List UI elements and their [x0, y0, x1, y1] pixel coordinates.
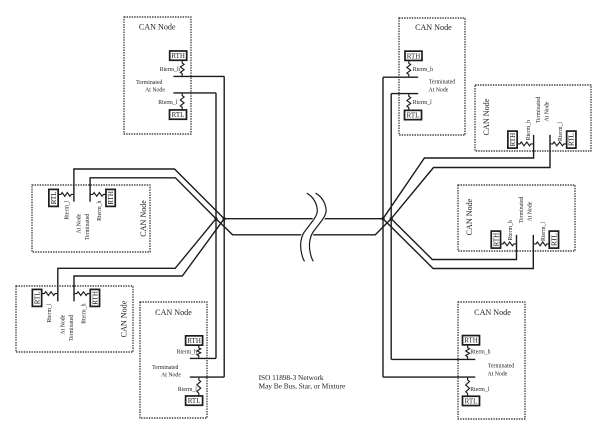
svg-text:At Node: At Node — [145, 88, 165, 94]
svg-text:RTH: RTH — [492, 233, 500, 247]
svg-text:Rterm_l: Rterm_l — [47, 303, 53, 322]
svg-text:CAN Node: CAN Node — [155, 308, 192, 317]
svg-text:CAN Node: CAN Node — [415, 23, 452, 32]
svg-text:Terminated: Terminated — [519, 197, 525, 223]
svg-text:CAN Node: CAN Node — [120, 300, 129, 337]
svg-text:Rterm_h: Rterm_h — [526, 120, 532, 140]
svg-text:RTH: RTH — [171, 52, 185, 60]
svg-text:RTH: RTH — [91, 291, 99, 305]
svg-text:RTH: RTH — [107, 191, 115, 205]
svg-text:Rterm_h: Rterm_h — [81, 303, 87, 323]
svg-text:RTL: RTL — [407, 111, 420, 119]
svg-text:CAN Node: CAN Node — [474, 308, 511, 317]
svg-text:RTL: RTL — [465, 397, 478, 405]
svg-text:Rterm_l: Rterm_l — [413, 100, 432, 106]
svg-text:Rterm_l: Rterm_l — [470, 387, 489, 393]
svg-text:RTH: RTH — [187, 337, 201, 345]
svg-text:At Node: At Node — [527, 201, 533, 221]
svg-text:Terminated: Terminated — [85, 214, 91, 240]
svg-text:RTL: RTL — [33, 291, 41, 304]
svg-text:At Node: At Node — [544, 101, 550, 121]
svg-text:Rterm_l: Rterm_l — [541, 222, 547, 241]
svg-text:Rterm_l: Rterm_l — [558, 122, 564, 141]
svg-text:Rterm_h: Rterm_h — [508, 220, 514, 240]
svg-text:Terminated: Terminated — [488, 364, 514, 370]
svg-text:Terminated: Terminated — [152, 365, 178, 371]
svg-text:Rterm_l: Rterm_l — [178, 387, 197, 393]
svg-text:RTL: RTL — [172, 111, 185, 119]
svg-text:At Node: At Node — [60, 314, 66, 334]
svg-text:RTL: RTL — [550, 233, 558, 246]
svg-text:May Be Bus, Star, or Mixture: May Be Bus, Star, or Mixture — [259, 381, 346, 390]
svg-text:CAN Node: CAN Node — [465, 198, 474, 235]
svg-text:CAN Node: CAN Node — [139, 22, 176, 31]
svg-text:Rterm_h: Rterm_h — [160, 67, 180, 73]
svg-text:Rterm_h: Rterm_h — [177, 349, 197, 355]
svg-text:Terminated: Terminated — [429, 80, 455, 86]
svg-text:Terminated: Terminated — [69, 315, 75, 341]
svg-text:Rterm_l: Rterm_l — [158, 100, 177, 106]
svg-text:Terminated: Terminated — [536, 97, 542, 123]
svg-text:Rterm_h: Rterm_h — [97, 201, 103, 221]
svg-text:RTL: RTL — [188, 397, 201, 405]
svg-text:RTH: RTH — [509, 133, 517, 147]
svg-text:At Node: At Node — [428, 88, 448, 94]
svg-text:At Node: At Node — [161, 372, 181, 378]
svg-text:Rterm_h: Rterm_h — [470, 350, 490, 356]
svg-text:RTH: RTH — [407, 52, 421, 60]
svg-text:Rterm_h: Rterm_h — [413, 67, 433, 73]
svg-text:RTL: RTL — [50, 191, 58, 204]
svg-text:At Node: At Node — [487, 372, 507, 378]
svg-text:At Node: At Node — [76, 213, 82, 233]
svg-text:CAN Node: CAN Node — [139, 200, 148, 237]
svg-text:Terminated: Terminated — [136, 80, 162, 86]
svg-text:Rterm_l: Rterm_l — [65, 200, 71, 219]
svg-text:RTH: RTH — [464, 337, 478, 345]
svg-text:RTL: RTL — [568, 133, 576, 146]
svg-text:CAN Node: CAN Node — [482, 98, 491, 135]
